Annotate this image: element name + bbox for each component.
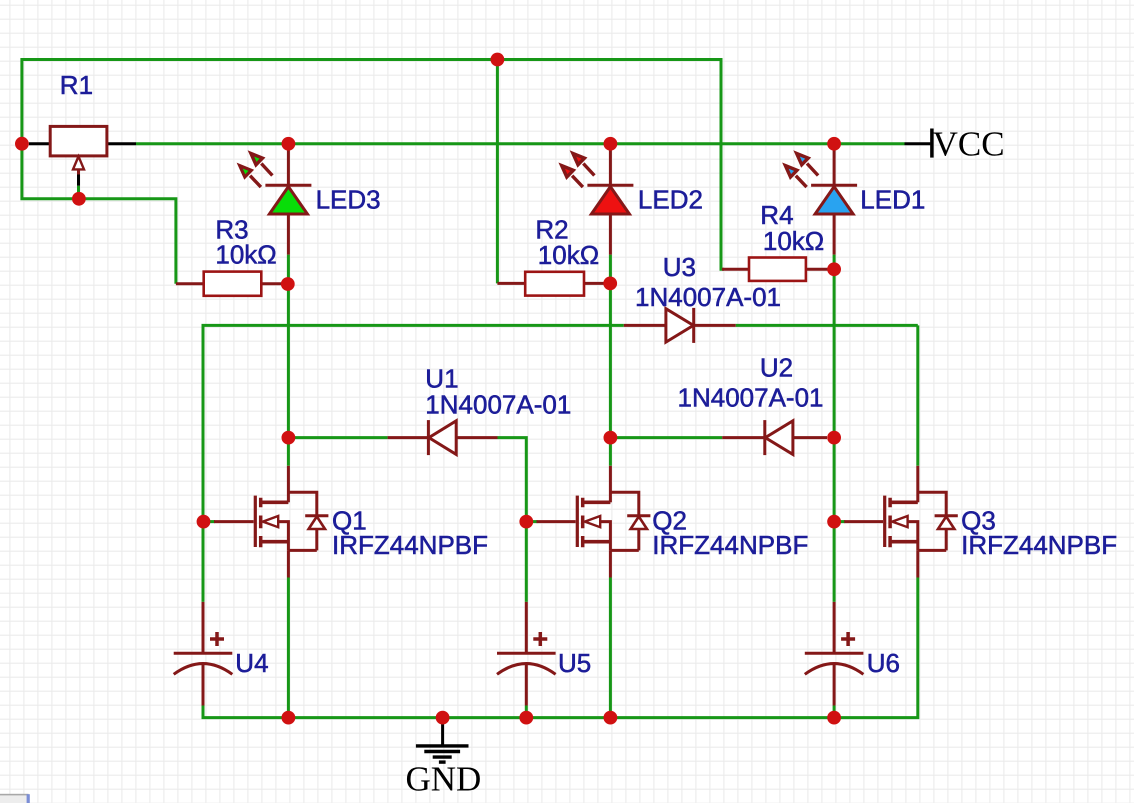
svg-text:LED3: LED3 [316, 185, 381, 215]
node U2 right [827, 431, 841, 445]
wire U1 row left [288, 436, 387, 439]
wire Q2 gate [526, 520, 537, 523]
wire bottom ground rail [203, 578, 918, 718]
svg-text:10kΩ: 10kΩ [215, 240, 276, 270]
wire R2 top column [496, 60, 499, 284]
transistor Q2 IRFZ44NPBF [537, 466, 809, 578]
diode U2 1N4007A-01 [678, 352, 828, 455]
transistor Q3 IRFZ44NPBF [844, 466, 1117, 578]
node U2 left [604, 431, 618, 445]
svg-text:LED1: LED1 [860, 185, 925, 215]
wire U1 to Q2 gate and cap U5 [498, 438, 527, 602]
node R4 out [827, 262, 841, 276]
wire cap U6 bottom [833, 706, 836, 718]
wire U2 row left [610, 436, 722, 439]
svg-text:1N4007A-01: 1N4007A-01 [635, 282, 781, 312]
wire LED3 column [287, 255, 290, 466]
svg-text:U5: U5 [558, 648, 591, 678]
node rail U5 [519, 711, 533, 725]
wire VCC rail [136, 142, 905, 145]
VCC power symbol [905, 125, 1005, 164]
wire Q1 source [287, 578, 290, 718]
svg-text:U3: U3 [663, 252, 696, 282]
node U1 left [282, 431, 296, 445]
svg-text:LED2: LED2 [638, 185, 703, 215]
scrollbar corner fragment [0, 794, 30, 803]
node LED2 top [604, 137, 618, 151]
ground symbol [406, 718, 482, 799]
potentiometer R1 [29, 70, 136, 195]
svg-text:IRFZ44NPBF: IRFZ44NPBF [652, 530, 808, 560]
wire LED1 column to Q3 gate and cap U6 [833, 255, 836, 602]
node rail GND [436, 711, 450, 725]
svg-text:1N4007A-01: 1N4007A-01 [425, 390, 571, 420]
wire U3 row right [736, 324, 918, 327]
wire Q2 source [609, 578, 612, 718]
svg-text:VCC: VCC [933, 125, 1005, 164]
svg-text:10kΩ: 10kΩ [538, 240, 599, 270]
svg-text:U2: U2 [760, 352, 793, 382]
node LED3 top [282, 137, 296, 151]
capacitor U4 [174, 602, 269, 706]
wire cap U5 bottom [525, 706, 528, 718]
svg-text:U6: U6 [867, 648, 900, 678]
node top rail / R2 [491, 53, 505, 67]
resistor R2 [497, 215, 605, 296]
node R2 out [603, 277, 617, 291]
wire LED2 column [609, 255, 612, 466]
node R1 wiper [72, 192, 86, 206]
transistor Q1 IRFZ44NPBF [214, 466, 488, 578]
node rail Q2 source [604, 711, 618, 725]
svg-text:1N4007A-01: 1N4007A-01 [678, 382, 824, 412]
svg-text:U4: U4 [235, 648, 268, 678]
resistor R3 [176, 215, 282, 296]
node VCC left [15, 137, 29, 151]
resistor R4 [722, 200, 828, 281]
node Q1 gate [197, 515, 211, 529]
capacitor U5 [497, 602, 591, 706]
wire Q1 gate [204, 520, 216, 523]
wire R1 wiper to R3 [77, 199, 176, 284]
wire U3 column left vertical [202, 325, 205, 602]
wire top rail from R1 top to R4 column [22, 60, 724, 270]
diode U1 1N4007A-01 [388, 364, 572, 456]
LED3 green [240, 144, 381, 255]
svg-text:IRFZ44NPBF: IRFZ44NPBF [961, 530, 1117, 560]
wire U3 row left [202, 324, 624, 327]
node rail U6 [827, 711, 841, 725]
node R3 out [281, 277, 295, 291]
wire Q3 gate [834, 520, 845, 523]
svg-text:IRFZ44NPBF: IRFZ44NPBF [332, 530, 488, 560]
node LED1 top [827, 137, 841, 151]
svg-text:R1: R1 [60, 70, 93, 100]
svg-text:10kΩ: 10kΩ [763, 226, 824, 256]
capacitor U6 [805, 602, 900, 706]
wire Q3 drain column [916, 325, 919, 465]
LED1 blue [785, 144, 925, 255]
LED2 red [562, 144, 703, 255]
node rail Q1 source [282, 711, 296, 725]
svg-text:GND: GND [406, 760, 482, 799]
node Q3 gate [827, 515, 841, 529]
node Q2 gate [519, 515, 533, 529]
diode U3 1N4007A-01 [624, 252, 781, 343]
